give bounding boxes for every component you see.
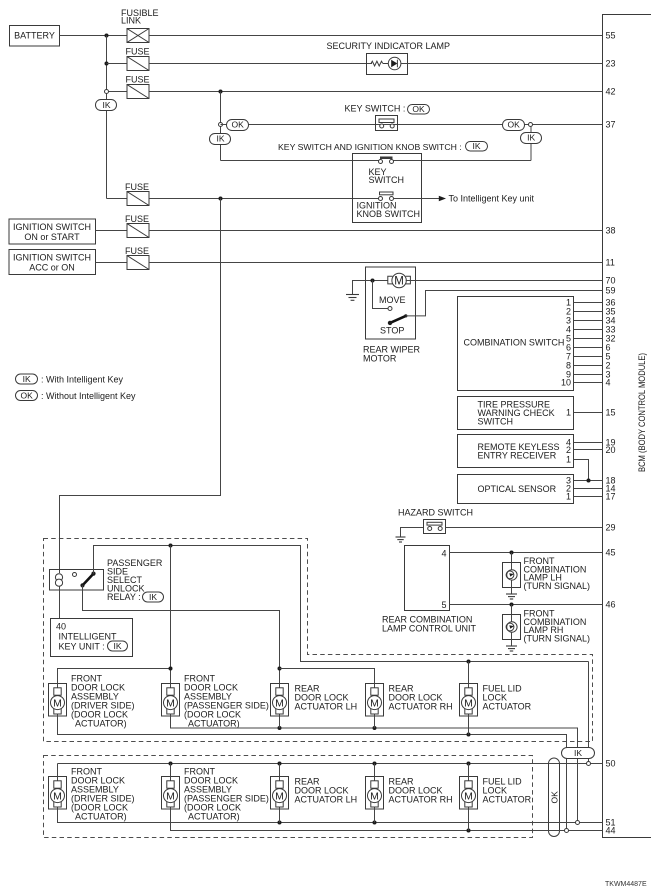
wire fuel lid drop row1 [468,662,470,684]
wire move contact branch [373,281,389,309]
fuel lid lock actuator row1 [460,684,478,717]
node open circle right OK branch [529,123,533,127]
svg-text:M: M [464,790,473,802]
svg-text:: Without Intelligent Key: : Without Intelligent Key [41,391,136,401]
svg-text:ACTUATOR): ACTUATOR) [188,719,240,729]
svg-text:ON or START: ON or START [24,232,80,242]
wire stop contact to BCM pin 59 [406,291,603,316]
node junction key switch feed [219,90,223,94]
wire key switch OK row [221,124,603,126]
wire wiper motor to BCM pin 70 [406,280,603,282]
svg-text:70: 70 [606,276,616,286]
wire row2 supply bus to BCM pin 50 [58,763,603,765]
wire row2 return bus to BCM pin 51 [58,809,603,823]
node open circle IK join pin 50 [587,762,591,766]
svg-text:LAMP CONTROL UNIT: LAMP CONTROL UNIT [382,624,477,634]
wire fuse F4 to ignition knob switch [149,198,379,200]
key switch KS1 symbol [376,116,398,131]
svg-text:15: 15 [606,408,616,418]
node open circle key switch OK branch [219,123,223,127]
svg-text:ENTRY RECEIVER: ENTRY RECEIVER [478,451,557,461]
svg-text:: With Intelligent Key: : With Intelligent Key [41,375,124,385]
svg-text:COMBINATION SWITCH: COMBINATION SWITCH [464,338,565,348]
svg-text:KEY SWITCH AND IGNITION KNOB S: KEY SWITCH AND IGNITION KNOB SWITCH : [278,142,462,152]
svg-text:17: 17 [606,492,616,502]
intelligent key unit box [51,619,133,657]
IK oval in knob switch label [466,141,488,151]
svg-text:IK: IK [149,592,157,602]
svg-text:1: 1 [566,408,571,418]
svg-text:ACTUATOR): ACTUATOR) [75,812,127,822]
svg-text:2: 2 [566,445,571,455]
wire row2 riser M3 [279,764,281,777]
svg-text:IGNITION SWITCH: IGNITION SWITCH [13,253,91,263]
node junction turn lamp RH [510,603,514,607]
wire fuse F2 to security indicator lamp [149,63,372,65]
optical pin 1 wire to BCM 17 [574,496,603,498]
svg-text:42: 42 [606,87,616,97]
fuse F4 [125,182,149,206]
wire right IK drop [530,127,532,161]
wire drop to lamp RH [511,605,513,623]
wire lamp unit pin 5 to BCM 46 [450,604,603,606]
fuse F5 [125,214,149,238]
wire battery vertical bus [106,36,108,199]
svg-text:IGNITION SWITCH: IGNITION SWITCH [13,222,91,232]
combination switch pin 8 wire to BCM 2 [574,365,603,367]
svg-text:MOVE: MOVE [379,295,406,305]
receiver pin 2 wire to BCM 20 [574,449,603,451]
key switch / ignition knob switch unit box [353,154,422,223]
svg-text:4: 4 [441,549,446,559]
svg-text:46: 46 [606,600,616,610]
svg-text:M: M [166,697,175,709]
svg-text:ACTUATOR RH: ACTUATOR RH [389,702,453,712]
svg-text:M: M [53,697,62,709]
svg-text:OK: OK [232,120,245,130]
svg-text:BCM (BODY CONTROL MODULE): BCM (BODY CONTROL MODULE) [637,353,647,472]
fuse F6 [125,246,149,270]
svg-text:1: 1 [566,455,571,465]
node junction row2 RH return [373,821,377,825]
svg-text:M: M [394,276,404,288]
wire key switch row to right IK [392,160,531,162]
svg-text:OK: OK [508,120,521,130]
receiver pin 1 wire joining optical sensor wire [574,460,589,481]
wire IK feed to pin 50 circle [588,662,590,762]
rear combination lamp control unit box [405,546,450,611]
combination switch pin 7 wire to BCM 5 [574,356,603,358]
node junction wiper move branch [371,279,375,283]
IK oval annotation bottom feeds [562,748,595,759]
combination switch pin 10 wire to BCM 4 [574,382,603,384]
wire lamp RH to ground [511,632,513,646]
remote keyless entry receiver box [458,435,574,468]
wire relay coil to intelligent key unit pin 40 [59,586,61,618]
svg-text:IK: IK [113,641,121,651]
combination switch pin 1 wire to BCM 36 [574,302,603,304]
wire battery to fusible link [60,35,128,37]
combination switch pin 2 wire to BCM 35 [574,311,603,313]
node junction rear RH return row1 [373,726,377,730]
optical sensor box [458,475,574,504]
optical pin 3 wire to BCM 18 [574,480,603,482]
svg-text:FUSE: FUSE [126,75,150,85]
wire relay common to unlock bus [94,546,589,662]
svg-text:To Intelligent Key unit: To Intelligent Key unit [449,194,535,204]
relay switch arm [83,574,94,586]
wire row2 riser M2 [170,764,172,777]
wire bus to fuse F3 [107,91,128,93]
security indicator lamp [327,41,451,75]
wire row2 riser M4 [374,764,376,777]
wire row2 fuel return drop [468,809,470,831]
svg-text:45: 45 [606,548,616,558]
combination switch pin 9 wire to BCM 3 [574,374,603,376]
OK oval annotation left [227,120,249,131]
node junction row2 LH return [278,821,282,825]
key switch KS2 symbol [379,157,394,164]
svg-text:KEY UNIT :: KEY UNIT : [59,642,105,652]
node junction row2 riser M3 [278,762,282,766]
front combination lamp RH (turn signal) [503,615,521,640]
svg-text:FUSE: FUSE [125,214,149,224]
node open circle IK join pin 51 [576,821,580,825]
node junction row2 riser fuel [467,762,471,766]
legend OK oval [16,391,137,402]
node junction front door net [169,544,173,548]
IK oval annotation on battery bus [96,100,117,111]
IK oval in key unit label [108,641,128,651]
svg-text:55: 55 [606,31,616,41]
node junction battery bus top [105,34,109,38]
dashed box with-IK door lock group [44,539,593,742]
battery B1 [10,26,60,47]
svg-text:ACTUATOR RH: ACTUATOR RH [389,795,453,805]
node junction battery bus row2 [105,62,109,66]
svg-text:M: M [370,790,379,802]
node junction row2 riser M4 [373,762,377,766]
wire hazard switch to BCM pin 29 [446,527,603,529]
ground hazard switch [396,537,406,542]
wire row2 riser fuel [468,764,470,777]
dashed box without-IK door lock group [44,756,533,838]
svg-text:37: 37 [606,120,616,130]
node open circle IK join pin 44 [565,829,569,833]
optical pin 2 wire to BCM 14 [574,488,603,490]
ground lamp LH [506,594,517,599]
wire ign2 to fuse F6 [96,262,128,264]
svg-text:MOTOR: MOTOR [363,354,397,364]
svg-text:ACC or ON: ACC or ON [29,263,75,273]
node junction row2 riser M2 [169,762,173,766]
node junction receiver pin1 on optical wire [587,479,591,483]
svg-text:M: M [275,697,284,709]
wire row2 riser M1 [57,764,59,777]
combination switch unit box [458,297,574,391]
svg-text:TKWM4487E: TKWM4487E [605,881,647,888]
node junction fuel lid drop [467,660,471,664]
svg-text:FUSE: FUSE [125,246,149,256]
svg-text:M: M [370,697,379,709]
svg-text:11: 11 [606,258,615,268]
svg-text:M: M [166,790,175,802]
wire knob switch to arrow [394,198,440,200]
node open circle MOVE contact [388,307,392,311]
svg-text:IK: IK [527,133,535,143]
wire front door net drop [170,546,172,684]
arrow to intelligent key unit [439,196,446,202]
ignition knob switch symbol [379,192,394,201]
svg-text:OK: OK [412,104,425,114]
svg-text:SWITCH: SWITCH [478,417,514,427]
svg-text:M: M [275,790,284,802]
svg-text:SECURITY INDICATOR LAMP: SECURITY INDICATOR LAMP [327,41,451,51]
resistor inside lamp unit [371,61,383,66]
svg-text:INTELLIGENT: INTELLIGENT [59,632,118,642]
svg-text:KNOB SWITCH: KNOB SWITCH [357,209,421,219]
wire row1 lower return bus (driver+fuel) to pin 44 riser [58,716,567,829]
wire hazard ground stub [401,528,424,537]
svg-text:OK: OK [549,791,559,804]
node junction row2 fuel return [467,829,471,833]
door lock actuator M3 row1 (rear LH) [271,684,289,717]
svg-text:IK: IK [23,374,31,384]
fuel lid lock actuator row2 [460,777,478,810]
svg-text:ACTUATOR): ACTUATOR) [75,719,127,729]
svg-text:40: 40 [56,622,66,632]
door lock actuator M1 row2 (driver) [49,777,67,810]
svg-text:LINK: LINK [121,16,141,26]
node junction front net motor2 [169,667,173,671]
hazard switch symbol [424,520,446,534]
door lock actuator M1 row1 (driver) [49,684,67,717]
svg-text:29: 29 [606,523,616,533]
wire fuel lid return drop row1 [468,716,470,735]
ignition switch ACC or ON box [9,250,96,275]
relay coil [55,574,62,587]
svg-text:10: 10 [561,378,571,388]
svg-text:5: 5 [441,600,446,610]
BCM (BODY CONTROL MODULE) outline [603,15,652,838]
svg-text:OK: OK [21,391,34,401]
wire key feed long drop to relay [60,199,221,574]
wire drop to lamp LH [511,553,513,571]
tire pressure warning check switch box [458,397,574,430]
OK oval annotation right [503,120,525,131]
door lock actuator M2 row1 (passenger) [162,684,180,717]
svg-text:M: M [53,790,62,802]
wire ground stub wiper [353,281,389,295]
svg-text:BATTERY: BATTERY [14,31,55,41]
svg-text:4: 4 [606,378,611,388]
svg-text:IK: IK [574,748,582,758]
svg-text:ACTUATOR): ACTUATOR) [188,812,240,822]
svg-text:IK: IK [102,100,110,110]
wire row1 upper return bus (pass+LH+RH) to pin 51 riser [171,716,578,821]
IK oval annotation right [521,133,542,144]
wire row2 RH return drop [374,809,376,823]
front combination lamp LH (turn signal) [503,563,521,588]
wire front net bus row1 [58,669,171,684]
wire lamp unit pin 4 to BCM 45 [450,552,603,554]
wire fuse F6 to BCM pin 11 [149,262,603,264]
wire lamp to BCM pin 23 [401,63,603,65]
ignition switch ON or START box [9,219,96,244]
fuse F2 [126,47,150,71]
svg-text:ACTUATOR LH: ACTUATOR LH [295,702,358,712]
wire ign1 to fuse F5 [96,230,128,232]
node junction rear net bus [278,667,282,671]
IK oval in relay label [143,592,164,602]
node open circle relay NC contact [73,573,77,577]
IK oval annotation left key switch [210,134,231,145]
svg-text:IK: IK [216,134,224,144]
svg-text:SWITCH: SWITCH [369,175,405,185]
passenger side select unlock relay box [50,570,104,591]
wire lamp LH to ground [511,580,513,594]
combination switch pin 4 wire to BCM 33 [574,329,603,331]
wire row2 LH return drop [279,809,281,823]
wire row2 return bus to BCM pin 44 [171,809,603,831]
svg-text:(TURN SIGNAL): (TURN SIGNAL) [524,633,591,643]
svg-text:HAZARD SWITCH: HAZARD SWITCH [398,508,473,518]
wire relay switched to rear net [83,585,280,683]
wire fuse F5 to BCM pin 38 [149,230,603,232]
svg-text:STOP: STOP [380,326,404,336]
wire rear RH return drop row1 [374,716,376,728]
node junction key feed drop [219,197,223,201]
fusible link FL [121,8,159,43]
motor M wiper [388,273,411,287]
svg-text:KEY SWITCH :: KEY SWITCH : [345,104,406,114]
door lock actuator M4 row1 (rear RH) [366,684,384,717]
svg-text:IK: IK [472,141,480,151]
legend IK oval [16,374,124,385]
tire switch pin 1 wire to BCM 15 [574,412,603,414]
fuse F3 [126,75,150,99]
svg-text:23: 23 [606,59,616,69]
svg-text:59: 59 [606,286,616,296]
svg-text:44: 44 [606,826,616,836]
svg-text:ACTUATOR LH: ACTUATOR LH [295,795,358,805]
svg-text:ACTUATOR: ACTUATOR [483,795,532,805]
receiver pin 4 wire to BCM 19 [574,442,603,444]
svg-text:M: M [464,697,473,709]
wire rear LH return drop row1 [279,716,281,728]
ground wiper motor [346,295,359,301]
svg-text:50: 50 [606,759,616,769]
svg-text:ACTUATOR: ACTUATOR [483,702,532,712]
svg-text:RELAY :: RELAY : [107,592,141,602]
svg-text:38: 38 [606,226,616,236]
svg-text:20: 20 [606,445,616,455]
node junction fuel lid return row1 [467,733,471,737]
wire fusible link to BCM pin 55 [149,35,603,37]
svg-text:OPTICAL SENSOR: OPTICAL SENSOR [478,484,557,494]
wire bus to fuse F4 [107,198,128,200]
wire rear net bus to actuator RH [280,669,375,684]
ground lamp RH [506,646,517,651]
door lock actuator M4 row2 (rear RH) [366,777,384,810]
svg-text:1: 1 [566,492,571,502]
door lock actuator M2 row2 (passenger) [162,777,180,810]
svg-text:FUSE: FUSE [126,47,150,57]
LED symbol [388,57,401,70]
wire fuse F3 to BCM pin 42 [149,91,603,93]
svg-text:(TURN SIGNAL): (TURN SIGNAL) [524,581,591,591]
wire key switch row into unit [221,160,381,162]
node junction turn lamp LH [510,551,514,555]
combination switch pin 5 wire to BCM 32 [574,338,603,340]
door lock actuator M3 row2 (rear LH) [271,777,289,810]
OK racetrack annotation [549,758,560,837]
svg-text:FUSE: FUSE [125,182,149,192]
combination switch pin 6 wire to BCM 6 [574,347,603,349]
switch arm STOP wiper [390,316,406,323]
wire key switch vertical drop [220,92,222,161]
combination switch pin 3 wire to BCM 34 [574,320,603,322]
OK oval in key switch label [408,104,430,114]
rear wiper motor unit box [366,267,416,339]
wire bus to fuse F2 [107,63,128,65]
node junction rear LH return row1 [278,726,282,730]
